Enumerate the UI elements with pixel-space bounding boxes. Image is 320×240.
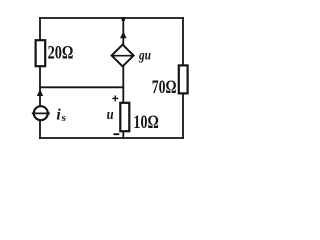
svg-text:s: s [62, 112, 67, 124]
node junction dot at top of middle branch [122, 17, 125, 21]
svg-text:gu: gu [138, 48, 151, 63]
label plus of u [112, 95, 118, 101]
current source is bar [32, 112, 50, 114]
svg-text:10Ω: 10Ω [133, 113, 158, 133]
resistor 70ohm [179, 65, 188, 93]
dependent source gu arrowhead [120, 31, 127, 38]
dependent source gu bar [112, 55, 133, 57]
svg-text:u: u [107, 107, 114, 123]
wire right lower [182, 94, 184, 139]
svg-text:20Ω: 20Ω [48, 44, 74, 64]
wire horizontal mid connecting node [40, 86, 123, 88]
svg-text:70Ω: 70Ω [152, 78, 177, 98]
wire middle upper [122, 18, 124, 45]
wire left upper [39, 18, 41, 41]
resistor 20ohm [36, 40, 46, 66]
resistor 10ohm [120, 103, 129, 131]
current source is circle [34, 106, 48, 120]
wire bottom [40, 137, 183, 139]
wire left lower [39, 121, 41, 139]
wire middle lower [122, 132, 124, 139]
wire top [40, 17, 183, 19]
current source is arrowhead [37, 89, 43, 96]
wire middle between diamond and resistor [122, 66, 124, 101]
wire right upper [182, 18, 184, 66]
dependent source gu diamond [112, 45, 134, 67]
label minus of u [113, 133, 119, 135]
wire left middle [39, 66, 41, 107]
